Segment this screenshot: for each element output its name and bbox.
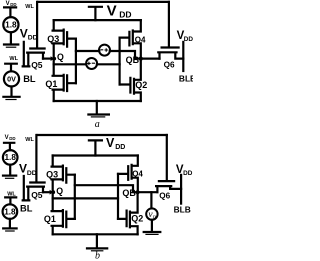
wire WL rail (top) — [38, 1, 169, 3]
svg-text:DD: DD — [28, 35, 38, 42]
ground (cell, center) — [88, 101, 109, 117]
noise source vn branch wire — [150, 192, 152, 208]
wire ground rail — [53, 233, 138, 235]
wire left inverter gate line — [74, 175, 76, 219]
wire cross-couple top (left gates to QB) — [75, 185, 138, 192]
node V_DD label (right of Q6) — [177, 30, 194, 43]
node V_DD label (left of Q5) — [20, 26, 38, 41]
svg-text:BL: BL — [20, 204, 33, 214]
svg-text:1.8: 1.8 — [5, 20, 17, 30]
svg-text:DD: DD — [10, 2, 16, 7]
svg-text:b: b — [95, 251, 100, 261]
node Q6 label — [164, 61, 175, 70]
node V_DD label (tiny, top-left) — [5, 135, 16, 141]
transistor Q6 — [156, 135, 181, 192]
node WL terminal label — [9, 56, 18, 62]
svg-text:V: V — [20, 26, 28, 40]
wire vn to ground — [151, 220, 153, 231]
ground (below 1.8V source) — [4, 45, 18, 48]
node WL label — [25, 137, 34, 143]
node BL label — [20, 204, 33, 214]
svg-text:Q4: Q4 — [132, 169, 143, 178]
svg-text:Q3: Q3 — [46, 169, 58, 179]
transistor Q2 — [120, 59, 141, 101]
svg-text:Q4: Q4 — [135, 35, 146, 44]
svg-text:WL: WL — [25, 137, 34, 143]
svg-text:Q: Q — [56, 186, 63, 196]
ground (below vn) — [144, 232, 161, 234]
node WL label — [25, 4, 34, 10]
transistor Q5 — [27, 2, 44, 67]
node Q4 label — [135, 35, 146, 44]
wire QB to Q6 — [138, 191, 158, 193]
noise source Vn1 (top) — [99, 45, 110, 56]
wire BLB tied to VDD — [180, 175, 182, 204]
node V_DD label (top center) — [107, 3, 132, 20]
svg-text:Q1: Q1 — [45, 79, 57, 89]
noise source Vn2 (bottom) — [86, 58, 97, 69]
node Q1 label — [44, 214, 56, 224]
wire right inverter gate line — [118, 38, 120, 85]
wire QB to Q6 — [141, 57, 160, 59]
node figure label b — [95, 251, 100, 261]
node Q3 label — [47, 34, 59, 44]
node V_DD label (left of Q5) — [19, 162, 37, 177]
node 1.8 text — [4, 207, 16, 216]
node Q5 label — [31, 190, 43, 200]
svg-text:WL: WL — [25, 4, 34, 10]
node 0V text — [7, 74, 16, 83]
wire VDD rail — [54, 19, 141, 21]
node Q4 label — [132, 169, 143, 178]
transistor Q1 — [53, 59, 76, 101]
transistor Q4 — [120, 20, 141, 59]
node Q2 label — [135, 80, 147, 90]
svg-text:V: V — [6, 1, 10, 7]
node QB junction dot — [136, 190, 140, 194]
node Q2 label — [131, 213, 143, 223]
svg-text:V: V — [106, 136, 115, 150]
svg-text:1.8: 1.8 — [4, 207, 16, 216]
transistor Q2 — [118, 192, 138, 234]
svg-text:V: V — [19, 162, 27, 176]
svg-text:DD: DD — [184, 36, 193, 43]
noise source vn circle — [146, 208, 157, 219]
node 1.8 text — [5, 20, 17, 30]
svg-text:a: a — [95, 119, 100, 130]
node BLB label — [179, 73, 196, 83]
svg-text:Q3: Q3 — [47, 34, 59, 44]
wire cross-couple bottom (node Q to right gates) — [54, 63, 120, 65]
svg-text:QB: QB — [122, 188, 136, 198]
node Q label — [56, 186, 63, 196]
wire BL tied to VDD — [23, 42, 30, 67]
node Q6 label — [159, 191, 170, 200]
svg-text:DD: DD — [119, 10, 131, 20]
node Q junction dot — [52, 57, 56, 61]
power VDD symbol — [89, 7, 102, 20]
svg-text:BLB: BLB — [179, 73, 193, 83]
node figure label a — [95, 119, 100, 130]
node 1.8 text — [5, 153, 17, 162]
wire right inverter gate line — [117, 174, 119, 219]
transistor Q5 — [27, 135, 44, 200]
node vn text — [148, 210, 156, 221]
transistor Q3 — [53, 20, 76, 59]
ground (below 1.8V source) — [3, 176, 16, 179]
svg-text:Q1: Q1 — [44, 214, 56, 224]
wire cross-couple top (left gates to QB) — [76, 51, 141, 59]
svg-text:V: V — [5, 135, 9, 141]
svg-text:BLB: BLB — [174, 205, 191, 215]
transistor Q6 — [158, 2, 183, 59]
svg-text:QB: QB — [126, 55, 140, 65]
voltage source 1.8V — [3, 7, 18, 43]
wire VDD rail — [53, 154, 138, 156]
power VDD symbol — [89, 140, 102, 155]
ground (below WL source) — [3, 228, 16, 231]
wire ground rail — [54, 100, 141, 102]
voltage source 1.8V on WL — [3, 197, 18, 227]
node QB label — [122, 188, 136, 198]
voltage source 1.8V (VDD) — [3, 143, 18, 175]
svg-text:Q2: Q2 — [131, 213, 143, 223]
wire left inverter gate line — [75, 39, 77, 84]
svg-text:1.8: 1.8 — [5, 153, 17, 162]
node Q label — [57, 52, 64, 62]
node Q3 label — [46, 169, 58, 179]
wire cross-couple bottom (node Q to right gates) — [53, 197, 118, 199]
wire BLB tied to VDD — [182, 42, 184, 71]
node Q5 label — [31, 60, 43, 70]
transistor Q4 — [118, 156, 138, 193]
ground (cell, center) — [87, 234, 107, 251]
svg-text:0V: 0V — [7, 74, 16, 83]
node Q junction dot — [51, 190, 55, 194]
svg-text:Q2: Q2 — [135, 80, 147, 90]
svg-text:WL: WL — [9, 56, 18, 62]
node V_DD label (right of Q6) — [176, 164, 193, 177]
svg-text:DD: DD — [9, 136, 15, 141]
svg-text:Q: Q — [57, 52, 64, 62]
svg-text:n: n — [153, 215, 156, 221]
node Q1 label — [45, 79, 57, 89]
svg-text:V: V — [107, 3, 117, 20]
node BL label — [23, 74, 36, 84]
wire BL tied to VDD — [23, 176, 30, 200]
wire WL rail (top) — [38, 134, 167, 136]
node WL terminal label — [7, 191, 16, 197]
ground (below 0V source) — [3, 97, 19, 100]
node V_DD label (top center) — [106, 136, 125, 151]
wire Q5 drain to node Q — [43, 190, 53, 195]
wire Q5 drain to node Q — [43, 56, 54, 61]
svg-text:DD: DD — [115, 144, 125, 151]
node BLB label — [174, 205, 191, 215]
svg-text:BL: BL — [23, 74, 36, 84]
svg-text:Q5: Q5 — [31, 60, 43, 70]
svg-text:Q6: Q6 — [164, 61, 175, 70]
voltage source 0V on WL — [4, 64, 19, 96]
svg-text:DD: DD — [27, 170, 37, 177]
node QB junction dot — [139, 57, 143, 61]
svg-text:Q6: Q6 — [159, 191, 170, 200]
transistor Q1 — [52, 192, 75, 234]
svg-text:DD: DD — [183, 170, 193, 177]
transistor Q3 — [52, 156, 75, 193]
svg-text:Q5: Q5 — [31, 190, 43, 200]
node QB label — [126, 55, 140, 65]
node V_DD label (tiny, top-left) — [6, 1, 17, 7]
